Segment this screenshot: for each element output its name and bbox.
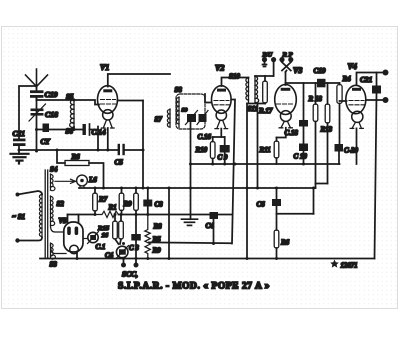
wire V2 grid left: [205, 94, 212, 103]
winding S2: [51, 196, 55, 225]
wire antenna to left drop: [19, 86, 36, 138]
wire V4 cathode down: [356, 128, 358, 164]
capacitor C2: [131, 215, 141, 259]
bus B4: [68, 214, 232, 216]
wire C19 junction down: [36, 98, 38, 151]
pilot lamp L6: [77, 175, 88, 188]
wire C18/C10 drop: [303, 83, 305, 120]
bottom bus: [40, 258, 375, 260]
capacitor CY: [43, 124, 50, 133]
svg-text:C4: C4: [206, 222, 215, 230]
svg-text:V4: V4: [348, 62, 357, 71]
resistor R6 (output): [274, 230, 279, 259]
svg-text:R 18: R 18: [308, 95, 323, 103]
svg-text:S7: S7: [155, 116, 163, 124]
wire S2 to V5: [51, 226, 64, 232]
wire V2 cathode to R10/C9: [220, 129, 222, 137]
capacitor C11: [13, 139, 26, 155]
wire HT- long vertical: [375, 94, 377, 259]
tube V2: [212, 86, 232, 129]
ground (antenna input): [11, 154, 29, 164]
wire V4 grid to R4: [340, 100, 347, 102]
wire AVC lower: [57, 150, 65, 163]
winding S3 (heater): [51, 243, 56, 259]
arrow to lamp: [55, 179, 76, 183]
wire B2 to B4 drop: [313, 188, 315, 214]
winding S4 (dial lamp): [51, 174, 55, 191]
wire V5 cathode stem: [76, 254, 78, 259]
wire V4 anode to terminal: [357, 73, 386, 85]
svg-text:C.16: C.16: [198, 133, 212, 141]
trimmer cap (IF1 a): [186, 111, 198, 130]
coil S9 (IF1 secondary): [176, 97, 179, 128]
svg-text:R10: R10: [195, 146, 208, 154]
svg-text:S10: S10: [229, 73, 240, 81]
wire V3 cathode down: [277, 128, 286, 138]
trimmer C1: [83, 232, 99, 244]
svg-text:R6: R6: [71, 153, 81, 161]
capacitor C21: [372, 73, 381, 94]
svg-text:C 10: C 10: [294, 153, 308, 161]
capacitor C20: [335, 144, 344, 164]
svg-text:C8: C8: [155, 201, 164, 209]
wire V3 grid top: [285, 72, 287, 85]
wire S6 bottom row: [37, 127, 82, 130]
svg-text:R6: R6: [280, 239, 290, 247]
svg-text:P.U: P.U: [263, 52, 274, 59]
svg-text:C6: C6: [257, 201, 266, 209]
resistor R13: [325, 83, 330, 184]
capacitor C4 (tone): [210, 212, 219, 244]
wire V1 anode top: [108, 74, 170, 87]
wire y243 link: [149, 241, 232, 244]
wire V1 grid left: [74, 100, 99, 105]
resistor R10: [210, 137, 215, 164]
capacitor C18 (det): [299, 120, 308, 144]
trimmer C4: [116, 246, 129, 259]
wire vertical x245.5: [246, 104, 248, 259]
power transformer core: [45, 170, 48, 258]
wire IF2 secondary bottom join: [247, 104, 265, 189]
svg-text:R11: R11: [259, 146, 271, 154]
svg-text:S8: S8: [175, 86, 183, 94]
wire cathode drop V1: [97, 127, 99, 151]
wire R10/C9 top link: [213, 136, 225, 138]
resistor R4: [337, 83, 342, 144]
svg-text:S2: S2: [57, 200, 65, 208]
svg-text:V2: V2: [215, 64, 224, 73]
terminal PU a: [262, 57, 267, 67]
svg-text:S9: S9: [182, 108, 188, 114]
svg-text:R1: R1: [108, 204, 117, 212]
terminal PU b: [271, 57, 276, 76]
svg-text:CY: CY: [41, 138, 51, 146]
svg-text:~ S1: ~ S1: [12, 213, 25, 221]
wire V5 anode leads: [68, 215, 79, 223]
resistor R18: [313, 83, 318, 188]
wire V2 anode to S10: [222, 78, 249, 87]
svg-text:C5: C5: [115, 159, 124, 167]
terminal RP a: [279, 57, 290, 71]
IF transformer 1 box: [176, 94, 205, 129]
trimmer cap (IF1 b): [197, 111, 208, 125]
svg-text:V3: V3: [293, 66, 302, 75]
wire V2 screen right down: [231, 100, 235, 244]
wire ground bus left: [19, 149, 118, 151]
wire R13 to R18 join: [316, 183, 328, 185]
wire B4 right segment: [277, 213, 314, 215]
mains switch arm 1: [16, 191, 43, 197]
capacitor C18 (variable): [29, 104, 46, 121]
capacitor C6: [272, 188, 281, 230]
bus B1 (+HT screen): [191, 163, 340, 165]
resistor R17: [263, 76, 268, 104]
resistors R8/R5/R9 chain (zigzag): [145, 215, 151, 259]
svg-text:12671: 12671: [341, 263, 358, 270]
capacitor C8: [143, 188, 152, 215]
svg-text:S4: S4: [50, 166, 58, 174]
SCC terminal b: [134, 259, 139, 268]
svg-text:C 3: C 3: [129, 244, 139, 252]
svg-text:C.18: C.18: [285, 129, 299, 137]
svg-text:C21: C21: [360, 75, 372, 84]
svg-text:C18: C18: [45, 110, 58, 119]
output terminal 2: [383, 97, 389, 103]
svg-text:V1: V1: [100, 63, 109, 72]
wire IF1 drop to ground: [190, 129, 192, 219]
svg-text:S.I.P.A.R. - MOD. « POPE 27 A: S.I.P.A.R. - MOD. « POPE 27 A »: [118, 282, 270, 292]
svg-text:C19: C19: [314, 67, 326, 75]
wire anode rail y83: [286, 82, 340, 84]
output terminal 1: [383, 70, 389, 76]
winding S1 (mains primary): [39, 194, 42, 238]
resistor R2: [119, 188, 124, 215]
coil S5/S6 (aerial coil secondary): [70, 99, 74, 127]
tube V3: [275, 85, 297, 128]
ground (IF1/detector): [182, 219, 198, 225]
svg-text:R8: R8: [153, 223, 163, 231]
svg-text:C 9: C 9: [218, 154, 228, 162]
tube V5 (rectifier): [64, 222, 83, 254]
capacitor C19 (coupling): [317, 79, 326, 88]
resistor R1 (zigzag): [95, 211, 119, 217]
svg-text:16: 16: [102, 232, 109, 239]
SCC terminal a: [121, 259, 126, 268]
capacitor C14: [83, 124, 99, 135]
coil S10 (IF2 primary): [246, 78, 249, 104]
wire R6 right to bus B2: [89, 163, 104, 188]
svg-text:SCC,: SCC,: [122, 270, 138, 279]
wire S3 to V5 heater: [51, 245, 67, 254]
svg-text:R9: R9: [152, 247, 162, 255]
resistor R6 (AVC, horizontal): [65, 161, 89, 166]
coil S7 (primary): [167, 109, 170, 127]
svg-text:R.17: R.17: [258, 107, 273, 115]
resistor R11: [274, 138, 279, 165]
antenna: [26, 69, 48, 90]
wire V1 cathode down: [107, 128, 109, 150]
svg-text:L6: L6: [88, 176, 97, 184]
svg-text:R7: R7: [98, 196, 108, 204]
svg-text:C19: C19: [45, 90, 58, 99]
wire vertical x169: [168, 188, 170, 259]
svg-text:R15: R15: [97, 225, 110, 232]
node: junction to coil S5: [37, 99, 75, 101]
capacitor C19 (antenna series): [30, 90, 44, 100]
capacitor C5: [119, 145, 143, 154]
wire vertical x143: [142, 101, 144, 189]
tube V4: [346, 85, 366, 128]
svg-text:S11: S11: [248, 105, 259, 113]
resistor R7: [93, 188, 98, 215]
coil S11 (IF2 secondary): [255, 76, 259, 103]
svg-text:R4: R4: [342, 75, 352, 83]
svg-text:C4: C4: [105, 252, 114, 260]
capacitor C9: [220, 137, 230, 164]
svg-text:S3: S3: [50, 261, 58, 269]
wire IF2 secondary top: [255, 75, 274, 77]
star mark: [330, 260, 339, 268]
svg-text:C.1: C.1: [96, 243, 106, 251]
wire V1 screen right: [117, 100, 143, 102]
svg-text:R13: R13: [320, 126, 333, 134]
bus B2 (AVC): [79, 187, 315, 189]
svg-text:R P: R P: [282, 52, 294, 59]
resistors R15/R16: [113, 215, 124, 245]
wire V4 plate2 to terminal: [367, 99, 386, 101]
mains lead 2: [15, 238, 42, 243]
tube V1: [98, 86, 118, 128]
capacitor C10: [299, 144, 308, 165]
svg-text:C11: C11: [13, 129, 26, 138]
resistor R9: [134, 188, 139, 215]
terminal RP b: [282, 57, 293, 72]
svg-text:V5: V5: [59, 217, 68, 225]
